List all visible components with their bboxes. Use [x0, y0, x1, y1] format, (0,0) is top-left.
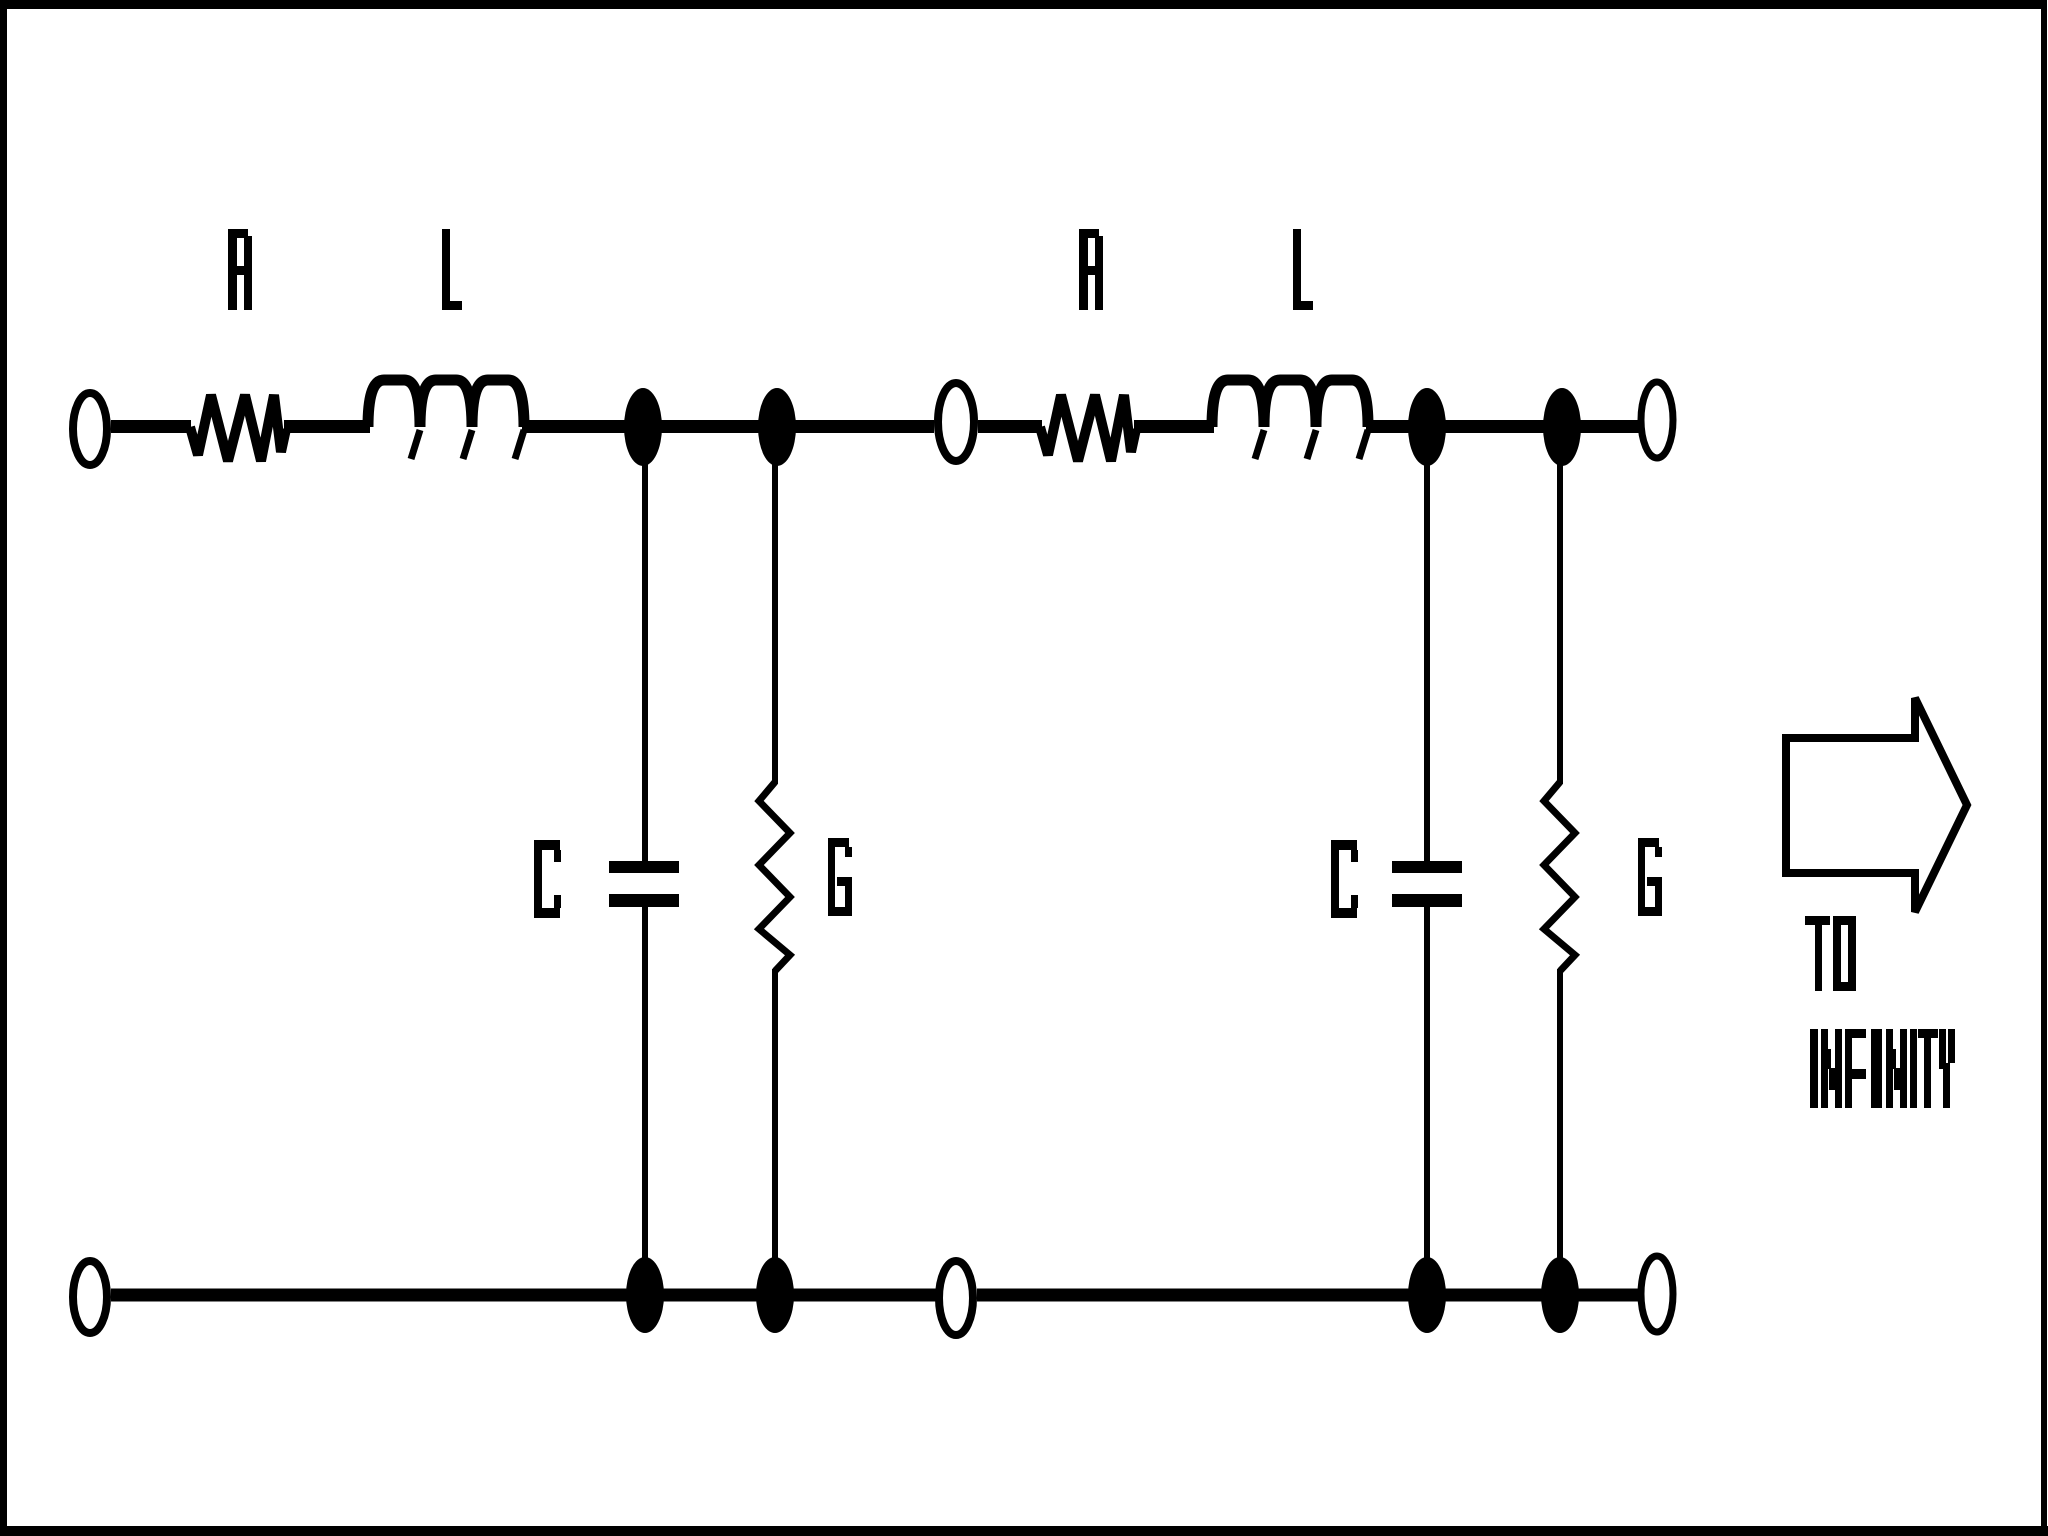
label L (section 1)	[442, 229, 462, 310]
label R (section 1)	[228, 229, 252, 310]
wire shunt C2 upper	[1424, 458, 1430, 862]
label L (section 2)	[1293, 229, 1313, 310]
node junction dot bottom 3	[1408, 1257, 1446, 1333]
border frame right	[2041, 0, 2047, 1536]
wire top rail segment 3	[522, 420, 934, 433]
border frame left	[0, 0, 7, 1536]
node junction dot top 3	[1408, 388, 1446, 466]
resistor G1 zigzag	[759, 782, 790, 971]
terminal circle top left	[73, 393, 107, 465]
capacitor C2 top plate	[1392, 861, 1462, 873]
label R (section 2)	[1079, 229, 1103, 310]
node junction dot bottom 2	[756, 1257, 794, 1333]
resistor R1	[190, 395, 286, 461]
inductor L1	[368, 380, 524, 427]
wire shunt G1 lower	[772, 969, 778, 1262]
wire top rail segment 1	[111, 420, 191, 433]
wire shunt C1 lower	[642, 907, 648, 1262]
node junction dot top 2	[758, 388, 796, 466]
wire top rail segment 6	[1366, 420, 1639, 433]
terminal circle bottom mid	[939, 1261, 973, 1335]
terminal circle top right	[1641, 382, 1673, 458]
terminal circle bottom left	[73, 1261, 107, 1333]
wire shunt C1 upper	[642, 458, 648, 862]
border frame bottom	[0, 1526, 2048, 1536]
label TO	[1805, 916, 1856, 991]
border frame top	[0, 0, 2043, 9]
capacitor C1 top plate	[609, 861, 679, 873]
inductor L2	[1212, 380, 1368, 427]
label C (section 2)	[1331, 840, 1358, 918]
node junction dot bottom 1	[626, 1257, 664, 1333]
wire top rail segment 5	[1134, 420, 1214, 433]
wire shunt G2 lower	[1557, 969, 1563, 1262]
label G (section 1)	[828, 838, 852, 916]
wire top rail segment 2	[284, 420, 370, 433]
label G (section 2)	[1638, 838, 1662, 916]
node junction dot bottom 4	[1541, 1257, 1579, 1333]
capacitor C1 bottom plate	[609, 894, 679, 907]
resistor R2	[1040, 395, 1136, 461]
node junction dot top 1	[624, 388, 662, 466]
resistor G2 zigzag	[1544, 782, 1575, 971]
node junction dot top 4	[1543, 388, 1581, 466]
label INFINITY	[1810, 1029, 1955, 1108]
wire bottom rail right	[977, 1289, 1639, 1302]
wire shunt G2 upper	[1557, 458, 1563, 784]
wire top rail segment 4	[978, 420, 1042, 433]
arrow to infinity	[1786, 698, 1967, 912]
capacitor C2 bottom plate	[1392, 894, 1462, 907]
wire shunt C2 lower	[1424, 907, 1430, 1262]
wire bottom rail left	[111, 1289, 936, 1302]
terminal circle top mid	[938, 383, 974, 461]
wire shunt G1 upper	[772, 458, 778, 784]
terminal circle bottom right	[1641, 1256, 1673, 1332]
label C (section 1)	[534, 840, 561, 918]
